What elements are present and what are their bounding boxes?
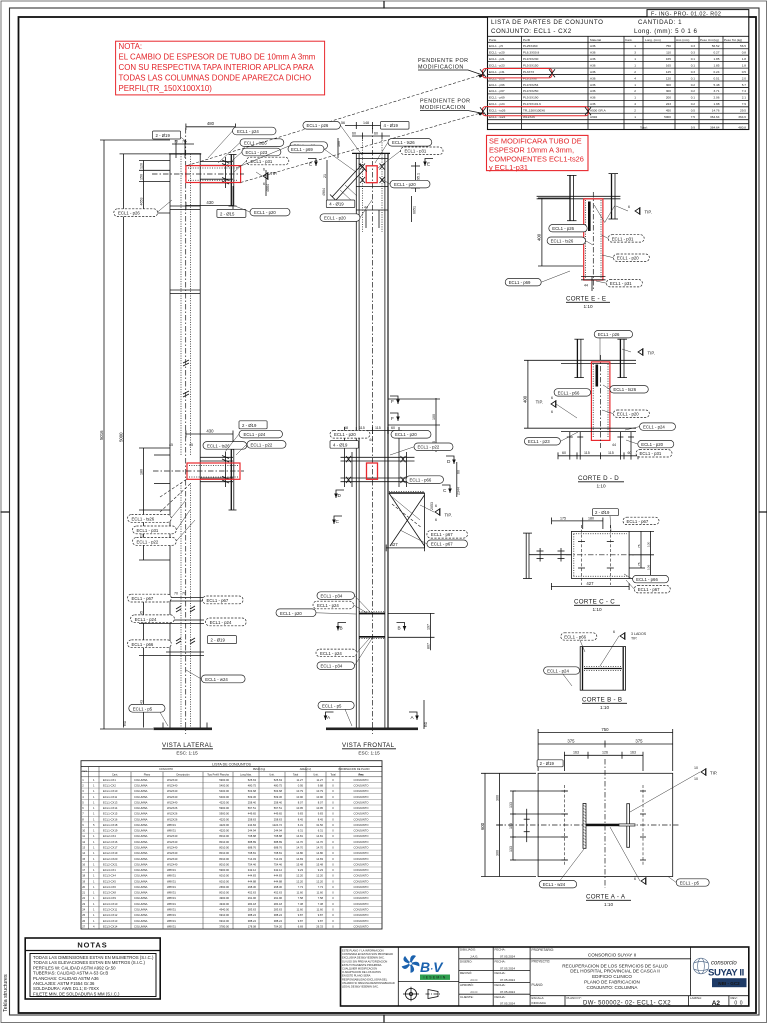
svg-text:44: 44 — [584, 284, 588, 288]
svg-text:258.40: 258.40 — [248, 800, 257, 804]
svg-text:EN ESTE PLANO SERA: EN ESTE PLANO SERA — [342, 974, 371, 978]
svg-text:750: 750 — [666, 44, 671, 48]
svg-text:427: 427 — [586, 581, 594, 586]
svg-text:FECHA:: FECHA: — [495, 983, 506, 987]
svg-text:VISTA LATERAL: VISTA LATERAL — [162, 742, 213, 749]
svg-text:ECL1 - p20: ECL1 - p20 — [617, 256, 639, 261]
A marker left — [324, 712, 334, 720]
svg-text:W12X40: W12X40 — [167, 851, 178, 855]
weld TIP gusset — [420, 504, 452, 522]
base plate — [154, 728, 213, 731]
svg-text:291.96: 291.96 — [248, 896, 257, 900]
svg-text:175: 175 — [560, 516, 566, 520]
svg-text:8.07: 8.07 — [318, 800, 324, 804]
svg-text:ECL1 - p26: ECL1 - p26 — [552, 226, 574, 231]
svg-text:688.76: 688.76 — [248, 845, 257, 849]
svg-text:CONJUNTO: CONJUNTO — [354, 913, 369, 917]
svg-text:ECL1 - p23: ECL1 - p23 — [489, 64, 505, 68]
callout ECL1-p26 left dashed — [114, 200, 172, 217]
svg-text:COLUMNA: COLUMNA — [134, 891, 148, 895]
right callouts lower — [203, 596, 244, 604]
svg-text:ESC: 1:15: ESC: 1:15 — [358, 751, 380, 756]
svg-text:TIP.: TIP. — [536, 400, 543, 405]
svg-text:1:10: 1:10 — [592, 607, 602, 612]
callout ECL1-p5 bottom frontal — [318, 702, 354, 727]
svg-text:70: 70 — [182, 592, 186, 596]
red highlight zone mid — [187, 463, 240, 479]
svg-text:10.95: 10.95 — [316, 806, 323, 810]
svg-text:PESO (Kg): PESO (Kg) — [253, 768, 266, 771]
svg-text:364.6: 364.6 — [738, 115, 746, 119]
dim 400 — [538, 198, 583, 266]
W24 web — [586, 824, 619, 827]
svg-text:165: 165 — [666, 64, 671, 68]
svg-text:4220.00: 4220.00 — [219, 817, 229, 821]
callout ECL1-p22 mid — [247, 441, 286, 449]
svg-text:CONJUNTO: CONJUNTO — [354, 924, 369, 928]
anchor pins — [567, 432, 634, 460]
right dims — [629, 531, 654, 578]
svg-text:COLUMNA: COLUMNA — [134, 913, 148, 917]
svg-text:6010.00: 6010.00 — [219, 879, 229, 883]
frame centering marks — [1, 511, 10, 513]
svg-text:RESPONSABILIDAD EXCLUSIVA DE: RESPONSABILIDAD EXCLUSIVA DEL — [342, 977, 388, 981]
svg-text:COLUMNA: COLUMNA — [134, 834, 148, 838]
svg-text:6: 6 — [435, 518, 437, 522]
svg-text:A36: A36 — [590, 96, 596, 100]
svg-text:480.8: 480.8 — [738, 125, 746, 129]
svg-text:ECL1 - p67: ECL1 - p67 — [132, 596, 154, 601]
svg-text:68: 68 — [344, 426, 348, 430]
svg-text:Unit.: Unit. — [269, 774, 274, 777]
svg-text:100: 100 — [432, 414, 436, 420]
svg-text:ECL2-CX21: ECL2-CX21 — [103, 862, 118, 866]
svg-text:W12X40: W12X40 — [167, 857, 178, 861]
svg-text:6010.00: 6010.00 — [219, 874, 229, 878]
TIP left — [536, 396, 577, 418]
svg-text:CONJUNTO: CONJUNTO — [354, 800, 369, 804]
svg-text:375: 375 — [635, 738, 643, 743]
svg-text:807: 807 — [426, 643, 430, 649]
svg-text:525.63: 525.63 — [248, 778, 257, 782]
svg-text:6.31: 6.31 — [318, 829, 324, 833]
svg-text:FILETE MIN. DE SOLDADURA 5 MM: FILETE MIN. DE SOLDADURA 5 MM (S.I.C.) — [33, 991, 120, 996]
svg-text:2 - Ø19: 2 - Ø19 — [540, 761, 555, 766]
svg-text:ECL1 - ts26: ECL1 - ts26 — [551, 239, 574, 244]
svg-text:19: 19 — [82, 879, 85, 883]
svg-text:14.80: 14.80 — [296, 851, 303, 855]
dim 400 left — [524, 360, 561, 428]
dims 197 807 right — [388, 613, 435, 650]
leader lines mid — [225, 434, 246, 455]
svg-text:ECL1 - p34: ECL1 - p34 — [321, 594, 343, 599]
svg-text:300: 300 — [495, 850, 499, 856]
svg-text:COLUMNA: COLUMNA — [134, 896, 148, 900]
svg-text:PL9.5X254: PL9.5X254 — [523, 83, 539, 87]
svg-text:ECL3-CX14: ECL3-CX14 — [103, 924, 118, 928]
svg-text:ECL1 - p20: ECL1 - p20 — [489, 51, 505, 55]
dim 375 375 — [538, 741, 673, 748]
svg-text:ECL1-CX13: ECL1-CX13 — [103, 800, 118, 804]
svg-text:ECL2-CX17: ECL2-CX17 — [103, 845, 118, 849]
svg-text:22: 22 — [82, 896, 85, 900]
svg-text:Total: Total — [330, 774, 336, 777]
svg-text:Tekla structures: Tekla structures — [3, 974, 9, 1012]
svg-text:7.5: 7.5 — [691, 115, 696, 119]
svg-text:27: 27 — [82, 924, 85, 928]
svg-text:TIP.: TIP. — [710, 771, 717, 776]
svg-text:14.70: 14.70 — [316, 845, 323, 849]
svg-text:444.88: 444.88 — [274, 879, 283, 883]
red row highlight ts26 — [483, 107, 589, 116]
lower plate bands frontal — [359, 612, 385, 639]
dashed diagonals mid zone — [160, 479, 187, 497]
svg-text:1: 1 — [634, 44, 636, 48]
svg-text:6: 6 — [634, 877, 636, 881]
svg-text:120: 120 — [666, 76, 671, 80]
beam top flange — [561, 359, 636, 361]
svg-text:PL9.5X150: PL9.5X150 — [523, 64, 539, 68]
callout ECL1-ts26 right — [375, 139, 432, 164]
svg-text:449.65: 449.65 — [248, 812, 257, 816]
svg-text:56: 56 — [341, 121, 345, 125]
column flange right inner — [384, 153, 386, 727]
svg-text:B: B — [340, 626, 343, 631]
svg-text:503.68: 503.68 — [248, 789, 257, 793]
svg-text:44: 44 — [369, 438, 373, 442]
callout ECL1-p24 left — [544, 667, 580, 686]
svg-text:ECL1-CX14: ECL1-CX14 — [103, 806, 118, 810]
svg-text:0 0: 0 0 — [734, 1001, 743, 1007]
svg-text:Plano: Plano — [144, 774, 151, 777]
svg-text:A36: A36 — [590, 64, 596, 68]
svg-text:0.3: 0.3 — [691, 44, 696, 48]
F marker 2 — [390, 413, 400, 421]
svg-text:CONJUNTO: CONJUNTO — [354, 907, 369, 911]
svg-text:444.83: 444.83 — [248, 874, 257, 878]
svg-text:J.A.G.: J.A.G. — [470, 955, 479, 959]
svg-text:ECL1 - p31: ECL1 - p31 — [640, 451, 662, 456]
mid connection plates frontal — [341, 452, 415, 487]
svg-text:688.76: 688.76 — [274, 845, 283, 849]
svg-text:29.5: 29.5 — [740, 109, 746, 113]
svg-text:TIP.: TIP. — [631, 637, 637, 641]
svg-text:9.87: 9.87 — [318, 913, 324, 917]
column flange right outer — [387, 153, 389, 727]
svg-text:388.24: 388.24 — [274, 919, 283, 923]
svg-text:18: 18 — [82, 874, 85, 878]
base plate — [538, 773, 673, 876]
svg-text:W12X40: W12X40 — [167, 800, 178, 804]
svg-text:8010.00: 8010.00 — [219, 862, 229, 866]
svg-text:07.05.2024: 07.05.2024 — [500, 978, 515, 982]
svg-text:17: 17 — [82, 868, 85, 872]
svg-text:ECL1 - ts26: ECL1 - ts26 — [392, 140, 415, 145]
tube centerline in zone — [152, 173, 244, 175]
svg-text:ECL1 - p31: ECL1 - p31 — [489, 70, 505, 74]
svg-text:11.60: 11.60 — [316, 891, 323, 895]
svg-text:PL6.3X50.8: PL6.3X50.8 — [523, 51, 539, 55]
svg-text:ECL1 - p67: ECL1 - p67 — [431, 542, 453, 547]
svg-text:0.1: 0.1 — [691, 76, 696, 80]
svg-text:115: 115 — [584, 451, 590, 455]
svg-text:ESCALA:: ESCALA: — [532, 996, 545, 1000]
svg-text:W12X40: W12X40 — [167, 862, 178, 866]
svg-text:PERFIL(TR_150X100X10): PERFIL(TR_150X100X10) — [119, 84, 213, 93]
svg-text:CONJUNTO: CONJUNTO — [354, 845, 369, 849]
svg-text:1224.72: 1224.72 — [272, 823, 282, 827]
svg-text:24: 24 — [82, 907, 85, 911]
svg-text:COLUMNA: COLUMNA — [134, 823, 148, 827]
callout ECL1-p23 — [242, 148, 281, 156]
callout ECL1-p20 left lower — [276, 609, 356, 617]
svg-text:2.0: 2.0 — [742, 76, 747, 80]
svg-text:14.70: 14.70 — [296, 840, 303, 844]
svg-text:ECL2-CX20: ECL2-CX20 — [103, 857, 118, 861]
svg-text:CONJUNTO: CONJUNTO — [354, 896, 369, 900]
callout ECL1-p66 right — [624, 574, 669, 583]
svg-text:LISTA DE PARTES DE CONJUNT: LISTA DE PARTES DE CONJUNTO — [491, 19, 603, 26]
svg-text:480.75: 480.75 — [274, 783, 283, 787]
svg-text:ECL1-CX19: ECL1-CX19 — [103, 829, 118, 833]
crosses on shaft lower — [176, 606, 195, 644]
svg-text:CONJUNTO: CONJUNTO — [354, 823, 369, 827]
se modificara red note — [487, 135, 589, 172]
red highlight zone top — [186, 166, 241, 183]
svg-text:223: 223 — [666, 102, 671, 106]
svg-text:148: 148 — [363, 121, 369, 125]
svg-text:SU USO SIN PREVIA AUTORIZA: SU USO SIN PREVIA AUTORIZACION — [342, 959, 387, 963]
svg-text:Total: Total — [293, 774, 299, 777]
callout ECL1-ts26 right — [603, 385, 648, 393]
svg-text:COLUMNA: COLUMNA — [134, 817, 148, 821]
svg-text:W8X31: W8X31 — [167, 896, 176, 900]
svg-text:1: 1 — [634, 96, 636, 100]
svg-text:ECL1 - p26: ECL1 - p26 — [307, 123, 329, 128]
svg-text:0.51: 0.51 — [713, 76, 719, 80]
svg-text:1.98: 1.98 — [713, 102, 719, 106]
svg-text:444.83: 444.83 — [274, 874, 283, 878]
svg-text:2: 2 — [634, 70, 636, 74]
svg-text:07.05.2024: 07.05.2024 — [500, 955, 515, 959]
callout ECL1-p31 dashed — [246, 157, 288, 165]
svg-text:14.83: 14.83 — [296, 857, 303, 861]
svg-text:6: 6 — [628, 205, 630, 209]
svg-text:2053: 2053 — [430, 502, 434, 510]
svg-text:ECL3-CX5: ECL3-CX5 — [103, 879, 116, 883]
dim 5000 — [120, 154, 171, 728]
column W24 shaft right edge — [199, 154, 201, 728]
stud plate left — [569, 175, 571, 220]
svg-text:J.C.C: J.C.C — [470, 990, 478, 994]
svg-text:5900.00: 5900.00 — [219, 812, 229, 816]
callout ECL1-ts26 mid — [203, 442, 247, 450]
svg-text:y ECL1-p31: y ECL1-p31 — [489, 163, 528, 172]
svg-text:1:10: 1:10 — [596, 484, 606, 489]
svg-text:ECL1 - p20: ECL1 - p20 — [394, 182, 416, 187]
svg-text:11.60: 11.60 — [296, 891, 303, 895]
svg-text:60: 60 — [628, 451, 632, 455]
svg-text:Area: Area — [358, 774, 364, 777]
svg-text:25: 25 — [82, 913, 85, 917]
BV pinwheel icon — [401, 955, 420, 973]
svg-text:ECL1-CX11: ECL1-CX11 — [103, 795, 118, 799]
svg-text:CONJUNTO: CONJUNTO — [354, 857, 369, 861]
svg-text:ECL1-CX2: ECL1-CX2 — [103, 783, 116, 787]
svg-text:CONSORCIO SUYAY II: CONSORCIO SUYAY II — [588, 952, 636, 957]
svg-text:120: 120 — [139, 163, 143, 169]
title block — [341, 947, 749, 1007]
svg-text:PROYECTO:: PROYECTO: — [532, 960, 551, 964]
svg-text:14.70: 14.70 — [296, 845, 303, 849]
dim 4664 — [265, 170, 267, 196]
svg-text:ECL3-CX13: ECL3-CX13 — [103, 919, 118, 923]
svg-text:ESC: 1:15: ESC: 1:15 — [176, 751, 198, 756]
gusset plate — [389, 492, 425, 549]
svg-text:ECL3-CX1: ECL3-CX1 — [103, 868, 116, 872]
svg-text:2 - Ø15: 2 - Ø15 — [220, 211, 235, 216]
connection plates mid — [200, 456, 233, 458]
svg-text:ESTE PLANO Y LA INFORMACIO: ESTE PLANO Y LA INFORMACION — [342, 949, 384, 953]
B marker left — [336, 623, 346, 631]
bolts mid — [222, 452, 229, 487]
svg-text:COLUMNA: COLUMNA — [134, 851, 148, 855]
long dashed reference diagonals — [187, 74, 484, 166]
top plate edges — [356, 158, 388, 160]
svg-text:6: 6 — [551, 396, 553, 400]
svg-text:427: 427 — [391, 542, 399, 547]
svg-text:525.63: 525.63 — [274, 778, 283, 782]
svg-text:W12X40: W12X40 — [167, 783, 178, 787]
svg-text:13: 13 — [82, 845, 85, 849]
svg-text:ECL1 - p67: ECL1 - p67 — [627, 519, 649, 524]
svg-text:430: 430 — [206, 200, 214, 205]
svg-text:ECL3-CX9: ECL3-CX9 — [103, 896, 116, 900]
right dims frontal top — [415, 162, 417, 192]
svg-text:8.45: 8.45 — [318, 817, 324, 821]
svg-text:300: 300 — [495, 795, 499, 801]
svg-text:8010.00: 8010.00 — [219, 851, 229, 855]
svg-text:ECL1-CX16: ECL1-CX16 — [103, 817, 118, 821]
svg-text:60: 60 — [352, 132, 356, 136]
svg-text:9.83: 9.83 — [298, 812, 304, 816]
svg-text:9.23: 9.23 — [318, 868, 324, 872]
shaft weld ticks — [170, 206, 200, 294]
svg-text:165: 165 — [666, 57, 671, 61]
svg-text:509.36: 509.36 — [274, 795, 283, 799]
svg-text:consorcio: consorcio — [711, 961, 737, 967]
section marker E left — [308, 159, 318, 167]
svg-text:ECL3-CX12: ECL3-CX12 — [103, 913, 118, 917]
svg-text:Item: Item — [82, 770, 87, 773]
svg-text:1: 1 — [634, 57, 636, 61]
svg-text:PL9.5X190: PL9.5X190 — [523, 96, 539, 100]
svg-text:6: 6 — [613, 630, 615, 634]
svg-text:ECL1-CX10: ECL1-CX10 — [103, 789, 118, 793]
svg-text:8010.00: 8010.00 — [219, 834, 229, 838]
svg-text:ECL1-CX18: ECL1-CX18 — [103, 823, 118, 827]
svg-text:CONJUNTO: CONJUNTO — [354, 885, 369, 889]
svg-text:A36: A36 — [590, 57, 596, 61]
svg-text:115: 115 — [608, 451, 614, 455]
callout ECL1-ts26 top — [240, 139, 284, 147]
svg-text:4: 4 — [634, 76, 636, 80]
svg-text:480: 480 — [207, 121, 215, 126]
svg-text:44: 44 — [612, 443, 616, 447]
svg-text:ECL3-CX4: ECL3-CX4 — [103, 874, 116, 878]
svg-text:0.24: 0.24 — [713, 70, 719, 74]
svg-text:4664: 4664 — [266, 184, 270, 192]
svg-text:12.20: 12.20 — [296, 874, 303, 878]
svg-text:14.80: 14.80 — [316, 851, 323, 855]
svg-text:258.40: 258.40 — [274, 800, 283, 804]
svg-text:NBI - GC2: NBI - GC2 — [718, 981, 740, 986]
column top cap — [352, 152, 390, 154]
NOTAS box — [25, 938, 160, 999]
callout ECL1-p67 right dashed — [626, 580, 670, 593]
svg-text:163: 163 — [630, 751, 636, 755]
C marker right — [442, 485, 452, 493]
svg-text:ECL1 - p24: ECL1 - p24 — [547, 668, 569, 673]
svg-text:CONJUNTO: CONJUNTO — [354, 919, 369, 923]
svg-text:0.1: 0.1 — [691, 96, 696, 100]
svg-text:B: B — [398, 626, 401, 631]
D marker left — [334, 490, 344, 498]
svg-text:COLUMNA: COLUMNA — [134, 874, 148, 878]
svg-text:CONJUNTO: CONJUNTO — [354, 783, 369, 787]
svg-text:5900.00: 5900.00 — [219, 806, 229, 810]
svg-text:15.48: 15.48 — [296, 862, 303, 866]
svg-text:EXCLUSIVA DE B&V IESEMIN S: EXCLUSIVA DE B&V IESEMIN SAC. — [342, 956, 385, 960]
svg-text:0.5: 0.5 — [691, 109, 696, 113]
svg-text:07.05.2024: 07.05.2024 — [500, 966, 515, 970]
svg-text:284.18: 284.18 — [274, 902, 283, 906]
svg-text:5900.00: 5900.00 — [219, 868, 229, 872]
svg-text:1: 1 — [634, 83, 636, 87]
svg-text:150: 150 — [139, 174, 143, 180]
svg-text:106: 106 — [647, 565, 651, 570]
svg-text:W12X26: W12X26 — [167, 812, 178, 816]
svg-text:E: E — [427, 162, 430, 167]
W24 column section: left flange — [583, 804, 586, 849]
svg-text:NOTAS: NOTAS — [77, 941, 107, 950]
svg-text:COLUMNA: COLUMNA — [134, 829, 148, 833]
svg-text:26.33: 26.33 — [316, 924, 323, 928]
svg-text:11.60: 11.60 — [296, 907, 303, 911]
svg-text:TIP.: TIP. — [648, 351, 655, 356]
svg-text:ECL1 - p67: ECL1 - p67 — [489, 89, 505, 93]
svg-text:Long. (mm): 5 0 1 6: Long. (mm): 5 0 1 6 — [634, 28, 698, 35]
svg-text:0.27: 0.27 — [713, 51, 719, 55]
svg-text:283.63: 283.63 — [248, 907, 257, 911]
small cross ticks mid shaft — [183, 360, 189, 397]
svg-text:0.2: 0.2 — [691, 89, 696, 93]
svg-text:ECL1 - p24: ECL1 - p24 — [317, 603, 339, 608]
svg-text:ECL1 - p66: ECL1 - p66 — [564, 634, 586, 639]
dim 163 126 163 — [564, 752, 643, 771]
svg-text:4940.00: 4940.00 — [219, 902, 229, 906]
svg-text:CONJUNTO: CONJUNTO — [354, 874, 369, 878]
svg-text:4940.00: 4940.00 — [219, 907, 229, 911]
svg-text:2 - Ø19: 2 - Ø19 — [242, 423, 257, 428]
svg-text:0.95: 0.95 — [298, 783, 304, 787]
svg-text:7.58: 7.58 — [298, 896, 304, 900]
svg-text:388.24: 388.24 — [274, 913, 283, 917]
svg-text:10.90: 10.90 — [296, 795, 303, 799]
svg-text:6: 6 — [435, 504, 437, 508]
svg-text:F: F — [391, 399, 394, 404]
bottom flange — [561, 427, 636, 429]
